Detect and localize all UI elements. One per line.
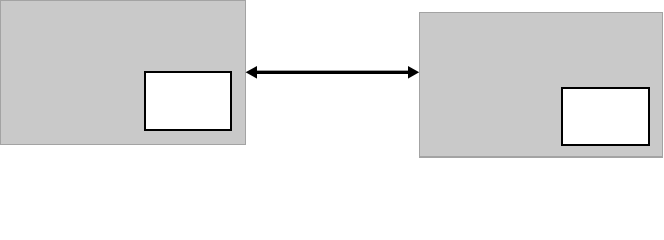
inner white box right bbox=[561, 87, 650, 146]
left arrowhead bbox=[246, 66, 257, 79]
double-headed arrow bbox=[0, 0, 664, 158]
outer gray box right bbox=[419, 12, 663, 158]
arrow shaft bbox=[254, 71, 411, 74]
right arrowhead bbox=[408, 66, 419, 79]
inner white box left bbox=[144, 71, 233, 132]
outer gray box left bbox=[0, 0, 246, 145]
